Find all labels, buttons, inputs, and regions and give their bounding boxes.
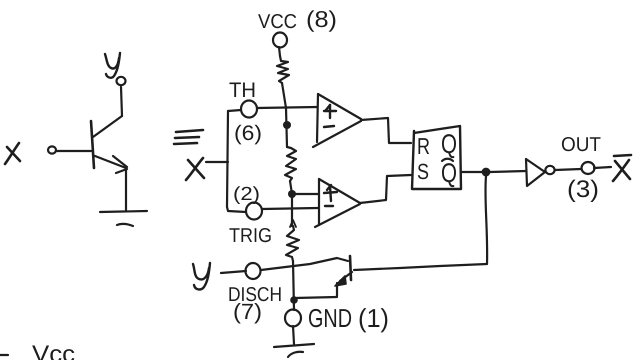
- wire R1 to R2 (divider): [282, 83, 287, 147]
- transistor Q1: [91, 87, 127, 210]
- wire X to pin column: [206, 161, 228, 163]
- wire feedback left to Q2: [354, 264, 487, 270]
- wire corner to TRIG circle: [227, 207, 246, 212]
- node X (left input label): [5, 143, 20, 164]
- resistor R3: [286, 226, 299, 261]
- wire R2 to R3: [290, 181, 292, 226]
- inverter U4: [526, 159, 545, 186]
- wire U2 out to S input: [360, 175, 411, 203]
- wire R3 to GND circle: [293, 261, 294, 310]
- pin TRIG terminal circle: [246, 203, 262, 220]
- wire TH to comparator U1: [257, 107, 317, 108]
- flip-flop U3 (R/S latch) box: [412, 126, 461, 189]
- wire Qbar out to junction: [461, 171, 482, 173]
- label X (mid input): [186, 158, 204, 180]
- net symbol (three bars): [174, 130, 203, 144]
- svg-text:(6): (6): [234, 122, 262, 145]
- junction dot (below TH wire): [283, 121, 291, 129]
- wire y to DISCH circle: [221, 271, 246, 273]
- wire X to base: [56, 150, 91, 152]
- wire to TH circle: [228, 110, 241, 111]
- small arrow tick on divider: [290, 220, 296, 227]
- resistor R2: [285, 147, 296, 181]
- junction dot (output node): [482, 168, 491, 177]
- svg-text:VCC: VCC: [258, 11, 297, 33]
- svg-text:S: S: [417, 159, 429, 184]
- wire TRIG to comparator U2: [262, 208, 318, 209]
- terminal circle Y (collector of Q1): [117, 77, 126, 85]
- svg-text:GND: GND: [308, 303, 352, 333]
- label X-bar: [613, 155, 631, 181]
- ground (bottom): [274, 344, 314, 357]
- wire pin column vertical: [227, 111, 228, 207]
- junction dot (emitter/GND node): [290, 296, 298, 304]
- wire feedback from output node down: [485, 176, 487, 264]
- svg-text:(7): (7): [233, 299, 262, 324]
- svg-text:(3): (3): [567, 176, 599, 203]
- pin GND terminal circle: [285, 310, 301, 327]
- pin TH terminal circle: [241, 101, 257, 118]
- stray mark bottom left: [0, 354, 8, 356]
- op-amp U2 (trigger comparator): [315, 179, 360, 227]
- wire DISCH circle to Q2: [261, 258, 348, 270]
- svg-text:(8): (8): [306, 6, 337, 32]
- label y (DISCH): [193, 263, 210, 289]
- svg-text:(1): (1): [358, 303, 389, 333]
- svg-text:TRIG: TRIG: [229, 225, 272, 247]
- label y (top left): [105, 53, 120, 78]
- svg-text:Q: Q: [441, 129, 457, 159]
- transistor Q2 (discharge): [295, 256, 352, 298]
- wire U1 out to R input: [361, 118, 411, 143]
- wire GND circle to ground: [293, 326, 294, 344]
- resistor R1: [277, 56, 289, 83]
- svg-text:Q: Q: [441, 158, 457, 188]
- svg-text:TH: TH: [229, 79, 256, 102]
- op-amp U1 (threshold comparator): [313, 94, 361, 147]
- power VCC terminal circle (pin 8): [273, 33, 287, 48]
- pin DISCH terminal circle: [246, 263, 261, 279]
- ground (left, below Q1 emitter): [100, 211, 147, 226]
- svg-text:R: R: [417, 133, 430, 159]
- svg-text:(2): (2): [233, 184, 260, 205]
- wire VCC to R1: [279, 47, 280, 56]
- junction dot (tap to U2 +): [288, 190, 296, 198]
- svg-text:Vcc: Vcc: [32, 341, 75, 360]
- terminal circle X: [48, 146, 56, 153]
- wire junction to inverter: [490, 171, 526, 172]
- inverter bubble: [545, 166, 554, 174]
- wire bubble to OUT circle: [555, 169, 581, 170]
- svg-text:OUT: OUT: [561, 134, 601, 156]
- wire OUT circle to Xbar: [594, 167, 611, 168]
- pin OUT terminal circle: [582, 162, 595, 174]
- wire tap to U2 + input: [292, 193, 318, 195]
